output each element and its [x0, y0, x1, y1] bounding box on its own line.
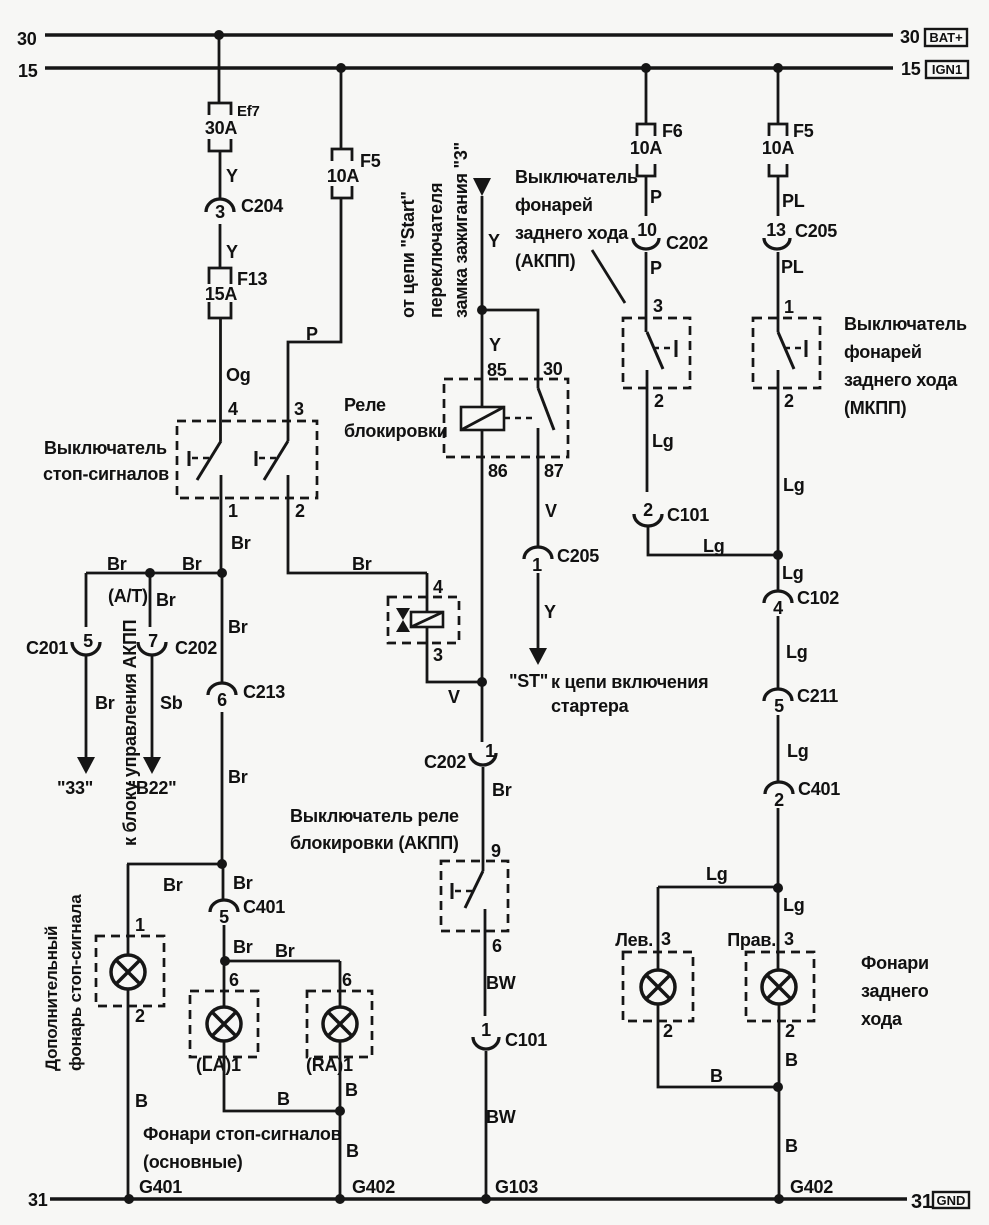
svg-text:V: V — [448, 687, 460, 707]
svg-text:BW: BW — [486, 973, 516, 993]
svg-text:C205: C205 — [795, 221, 837, 241]
svg-text:(RA)1: (RA)1 — [306, 1055, 353, 1075]
svg-text:B: B — [710, 1066, 723, 1086]
svg-text:C101: C101 — [505, 1030, 547, 1050]
svg-text:C102: C102 — [797, 588, 839, 608]
svg-text:10A: 10A — [762, 138, 795, 158]
svg-text:Br: Br — [228, 767, 248, 787]
svg-text:Y: Y — [489, 335, 501, 355]
svg-text:15: 15 — [18, 61, 38, 81]
svg-text:Выключатель: Выключатель — [44, 438, 167, 458]
svg-text:Lg: Lg — [706, 864, 728, 884]
svg-text:1: 1 — [228, 501, 238, 521]
svg-text:переключателя: переключателя — [426, 183, 446, 318]
svg-text:Y: Y — [488, 231, 500, 251]
svg-text:Sb: Sb — [160, 693, 183, 713]
svg-text:Lg: Lg — [783, 475, 805, 495]
svg-text:PL: PL — [782, 191, 805, 211]
svg-text:30: 30 — [543, 359, 563, 379]
svg-text:1: 1 — [481, 1020, 491, 1040]
svg-text:Y: Y — [226, 166, 238, 186]
svg-text:(основные): (основные) — [143, 1152, 243, 1172]
svg-text:6: 6 — [229, 970, 239, 990]
svg-text:"33": "33" — [57, 778, 93, 798]
svg-text:5: 5 — [83, 631, 93, 651]
svg-text:Ef7: Ef7 — [237, 103, 260, 120]
svg-text:2: 2 — [774, 790, 784, 810]
svg-text:2: 2 — [784, 391, 794, 411]
svg-text:(МКПП): (МКПП) — [844, 398, 907, 418]
svg-text:9: 9 — [491, 841, 501, 861]
svg-text:Br: Br — [163, 875, 183, 895]
svg-text:(LA)1: (LA)1 — [196, 1055, 241, 1075]
svg-text:B: B — [346, 1141, 359, 1161]
svg-text:30: 30 — [900, 27, 920, 47]
svg-text:C205: C205 — [557, 546, 599, 566]
svg-text:2: 2 — [654, 391, 664, 411]
svg-text:замка зажигания "3": замка зажигания "3" — [451, 142, 471, 318]
svg-text:7: 7 — [148, 631, 158, 651]
svg-text:блокировки: блокировки — [344, 421, 448, 441]
svg-text:блокировки (АКПП): блокировки (АКПП) — [290, 833, 459, 853]
svg-text:5: 5 — [774, 696, 784, 716]
svg-text:G401: G401 — [139, 1177, 182, 1197]
svg-text:B: B — [277, 1089, 290, 1109]
svg-text:C201: C201 — [26, 638, 68, 658]
svg-text:1: 1 — [532, 555, 542, 575]
svg-text:хода: хода — [861, 1009, 903, 1029]
svg-text:G402: G402 — [352, 1177, 395, 1197]
svg-text:фонарей: фонарей — [844, 342, 922, 362]
svg-text:BW: BW — [486, 1107, 516, 1127]
svg-text:86: 86 — [488, 461, 508, 481]
svg-text:(А/Т): (А/Т) — [108, 586, 148, 606]
svg-text:Lg: Lg — [783, 895, 805, 915]
svg-text:Выключатель реле: Выключатель реле — [290, 806, 459, 826]
svg-text:стоп-сигналов: стоп-сигналов — [43, 464, 169, 484]
svg-text:от цепи "Start": от цепи "Start" — [398, 191, 418, 318]
svg-text:Дополнительный: Дополнительный — [42, 926, 61, 1071]
svg-text:PL: PL — [781, 257, 804, 277]
svg-text:Br: Br — [231, 533, 251, 553]
svg-text:B: B — [345, 1080, 358, 1100]
svg-text:Br: Br — [182, 554, 202, 574]
svg-text:2: 2 — [643, 500, 653, 520]
svg-text:2: 2 — [295, 501, 305, 521]
svg-text:4: 4 — [773, 598, 783, 618]
svg-text:Выключатель: Выключатель — [844, 314, 967, 334]
svg-text:заднего хода: заднего хода — [844, 370, 958, 390]
svg-text:30A: 30A — [205, 118, 238, 138]
svg-text:85: 85 — [487, 360, 507, 380]
svg-text:15A: 15A — [205, 284, 238, 304]
svg-text:C101: C101 — [667, 505, 709, 525]
svg-text:6: 6 — [217, 690, 227, 710]
svg-text:(АКПП): (АКПП) — [515, 251, 576, 271]
svg-text:Лев.: Лев. — [615, 930, 653, 950]
svg-text:C211: C211 — [797, 686, 838, 706]
svg-text:Og: Og — [226, 365, 251, 385]
svg-text:Y: Y — [544, 602, 556, 622]
svg-text:6: 6 — [492, 936, 502, 956]
svg-text:F5: F5 — [360, 151, 381, 171]
svg-text:C401: C401 — [243, 897, 285, 917]
svg-text:Br: Br — [228, 617, 248, 637]
svg-text:31: 31 — [28, 1190, 48, 1210]
svg-text:фонарей: фонарей — [515, 195, 593, 215]
svg-text:1: 1 — [784, 297, 794, 317]
svg-text:3: 3 — [294, 399, 304, 419]
svg-text:Br: Br — [233, 873, 253, 893]
svg-text:2: 2 — [135, 1006, 145, 1026]
svg-text:фонарь стоп-сигнала: фонарь стоп-сигнала — [66, 894, 85, 1071]
svg-text:стартера: стартера — [551, 696, 630, 716]
svg-text:F6: F6 — [662, 121, 683, 141]
svg-text:87: 87 — [544, 461, 564, 481]
svg-text:V: V — [545, 501, 557, 521]
svg-text:3: 3 — [433, 645, 443, 665]
svg-text:Выключатель: Выключатель — [515, 167, 638, 187]
svg-text:30: 30 — [17, 29, 37, 49]
svg-text:C202: C202 — [424, 752, 466, 772]
svg-text:Br: Br — [107, 554, 127, 574]
svg-text:Br: Br — [95, 693, 115, 713]
svg-text:Lg: Lg — [703, 536, 725, 556]
svg-text:2: 2 — [663, 1021, 673, 1041]
svg-text:Br: Br — [233, 937, 253, 957]
svg-text:B: B — [135, 1091, 148, 1111]
svg-text:заднего: заднего — [861, 981, 929, 1001]
svg-text:3: 3 — [661, 929, 671, 949]
svg-text:5: 5 — [219, 907, 229, 927]
svg-text:Прав.: Прав. — [727, 930, 776, 950]
svg-text:Br: Br — [352, 554, 372, 574]
svg-text:10: 10 — [637, 220, 657, 240]
svg-text:3: 3 — [215, 202, 225, 222]
svg-text:6: 6 — [342, 970, 352, 990]
svg-text:BAT+: BAT+ — [929, 30, 963, 45]
svg-text:Lg: Lg — [652, 431, 674, 451]
svg-text:Реле: Реле — [344, 395, 386, 415]
svg-text:IGN1: IGN1 — [932, 62, 962, 77]
svg-text:10A: 10A — [630, 138, 663, 158]
svg-text:13: 13 — [766, 220, 786, 240]
svg-text:3: 3 — [653, 296, 663, 316]
svg-text:заднего хода: заднего хода — [515, 223, 629, 243]
svg-text:к цепи включения: к цепи включения — [551, 672, 708, 692]
svg-text:G402: G402 — [790, 1177, 833, 1197]
svg-text:10A: 10A — [327, 166, 360, 186]
svg-text:P: P — [650, 187, 662, 207]
svg-text:Lg: Lg — [787, 741, 809, 761]
svg-text:4: 4 — [228, 399, 238, 419]
svg-text:C401: C401 — [798, 779, 840, 799]
svg-text:P: P — [306, 324, 318, 344]
svg-text:Br: Br — [492, 780, 512, 800]
svg-text:4: 4 — [433, 577, 443, 597]
svg-text:F5: F5 — [793, 121, 814, 141]
svg-text:G103: G103 — [495, 1177, 538, 1197]
svg-text:F13: F13 — [237, 269, 268, 289]
svg-text:Фонари: Фонари — [861, 953, 929, 973]
svg-text:Lg: Lg — [782, 563, 804, 583]
svg-text:1: 1 — [135, 915, 145, 935]
svg-text:Br: Br — [156, 590, 176, 610]
svg-text:C202: C202 — [175, 638, 217, 658]
svg-text:к блоку управления АКПП: к блоку управления АКПП — [120, 620, 140, 846]
svg-text:31: 31 — [911, 1191, 933, 1213]
svg-text:15: 15 — [901, 59, 921, 79]
svg-text:C204: C204 — [241, 196, 283, 216]
svg-text:3: 3 — [784, 929, 794, 949]
svg-text:GND: GND — [937, 1193, 966, 1208]
svg-text:B: B — [785, 1136, 798, 1156]
svg-text:Фонари стоп-сигналов: Фонари стоп-сигналов — [143, 1124, 342, 1144]
svg-text:Y: Y — [226, 242, 238, 262]
svg-text:Br: Br — [275, 941, 295, 961]
svg-text:"ST": "ST" — [509, 671, 548, 691]
svg-text:2: 2 — [785, 1021, 795, 1041]
svg-text:B: B — [785, 1050, 798, 1070]
svg-text:Lg: Lg — [786, 642, 808, 662]
svg-text:C213: C213 — [243, 682, 285, 702]
svg-text:C202: C202 — [666, 233, 708, 253]
svg-text:P: P — [650, 258, 662, 278]
